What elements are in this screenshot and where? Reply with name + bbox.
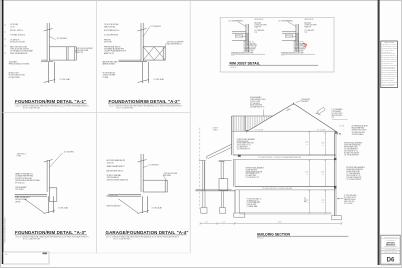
svg-text:TYP: TYP — [255, 32, 258, 34]
svg-text:1/2" GYP BD INTERIOR: 1/2" GYP BD INTERIOR — [344, 155, 359, 157]
svg-text:1/2" OSB SHTG: 1/2" OSB SHTG — [64, 152, 75, 154]
svg-text:10 BOLTS: 10 BOLTS — [107, 162, 114, 164]
svg-text:BOLTS 16 10 FLOOR: BOLTS 16 10 FLOOR — [10, 42, 25, 44]
svg-text:W/ #4 VERT 48" OC: W/ #4 VERT 48" OC — [344, 197, 356, 199]
svg-text:iLevel: iLevel — [305, 22, 312, 24]
svg-text:R21 SLOPE 2X6 SLOPE HOUSE: R21 SLOPE 2X6 SLOPE HOUSE — [382, 64, 397, 66]
svg-text:SEE EN NOTE: SEE EN NOTE — [305, 19, 314, 21]
svg-text:OF 8: OF 8 — [389, 264, 392, 266]
svg-text:MIN PROOF FOOTING IN BLOCK: MIN PROOF FOOTING IN BLOCK — [382, 48, 398, 50]
svg-text:1/2" OSB SHTG: 1/2" OSB SHTG — [305, 30, 315, 32]
svg-text:FLOOR 6 BELOW: FLOOR 6 BELOW — [103, 72, 116, 74]
svg-text:BOLTS MIN ELEV 6'-0: BOLTS MIN ELEV 6'-0 — [104, 30, 119, 32]
svg-text:S-100: S-100 — [231, 55, 235, 57]
svg-text:RIM SILL 1/2 PER JOIST STU: RIM SILL 1/2 PER JOIST STU — [382, 68, 396, 70]
svg-text:1/2" OSB SHTG: 1/2" OSB SHTG — [151, 26, 162, 28]
svg-text:PT MIN OSB JOIST JOIST MIN: PT MIN OSB JOIST JOIST MIN — [382, 74, 396, 76]
svg-text:PT STUD 6'-0: PT STUD 6'-0 — [15, 182, 24, 184]
svg-text:W/ FLOOR: W/ FLOOR — [104, 42, 112, 44]
svg-text:FOUNDATION/RIM DETAIL "A-2": FOUNDATION/RIM DETAIL "A-2" — [109, 99, 180, 104]
svg-text:8'-1" CLG HGT: 8'-1" CLG HGT — [255, 129, 264, 131]
svg-text:VENT PER SPEC: VENT PER SPEC — [332, 115, 343, 117]
svg-text:S-100: S-100 — [281, 55, 285, 57]
svg-text:SEE EN NOTE: SEE EN NOTE — [255, 19, 264, 21]
svg-text:1/2" GYP BD INTERIOR: 1/2" GYP BD INTERIOR — [346, 179, 361, 181]
svg-text:W/ CONT SOFFIT: W/ CONT SOFFIT — [332, 113, 343, 115]
svg-text:SIDING PER ELEV: SIDING PER ELEV — [237, 141, 249, 143]
svg-text:PER BLOCKING 10 FOOTING: PER BLOCKING 10 FOOTING — [9, 64, 30, 66]
svg-text:1/2" OSB SHTG: 1/2" OSB SHTG — [57, 38, 68, 40]
svg-text:FT W/: FT W/ — [17, 156, 22, 158]
svg-text:3/16"=1'-0": 3/16"=1'-0" — [257, 238, 264, 240]
svg-text:SIDING PER ELEV: SIDING PER ELEV — [246, 169, 258, 171]
svg-text:10 ELEV 2X6 PER: 10 ELEV 2X6 PER — [103, 75, 116, 77]
svg-text:JOIST IN 6'-0: JOIST IN 6'-0 — [17, 153, 26, 155]
svg-text:JOIST HOLD-DOWN: JOIST HOLD-DOWN — [164, 173, 177, 175]
svg-text:2'-1": 2'-1" — [222, 222, 225, 224]
svg-text:TJI RIM JOIST PER: TJI RIM JOIST PER — [305, 25, 317, 27]
svg-text:PT PER: PT PER — [103, 77, 109, 79]
svg-text:BD R21 JOIST: BD R21 JOIST — [9, 72, 19, 74]
svg-text:JOIST BD HOUSE SIDING 2X6: JOIST BD HOUSE SIDING 2X6 — [107, 179, 128, 181]
svg-text:GARAGE/FOUNDATION DETAIL "A-: GARAGE/FOUNDATION DETAIL "A-4" — [106, 230, 189, 235]
svg-text:7'-9": 7'-9" — [322, 200, 325, 202]
svg-text:SEE SHEET D2 FOR: SEE SHEET D2 FOR — [244, 47, 256, 49]
svg-text:COMP SHINGLES OVER: COMP SHINGLES OVER — [250, 99, 265, 101]
svg-text:3/4"=1'-0": 3/4"=1'-0" — [231, 67, 237, 69]
svg-text:R21 BLOCKING: R21 BLOCKING — [9, 77, 21, 79]
svg-text:15# FELT OVER: 15# FELT OVER — [250, 101, 260, 103]
svg-text:RIM JOIST DETAIL: RIM JOIST DETAIL — [230, 61, 260, 65]
svg-text:D6: D6 — [387, 257, 395, 264]
svg-text:14'-2": 14'-2" — [278, 222, 282, 224]
svg-text:CLG: CLG — [322, 174, 325, 176]
svg-text:VENTED VINYL SOFFIT: VENTED VINYL SOFFIT — [352, 130, 367, 132]
svg-text:R-49 BLOWN INSUL: R-49 BLOWN INSUL — [250, 105, 263, 107]
svg-text:FOUNDATION/RIM DETAIL "A-1": FOUNDATION/RIM DETAIL "A-1" — [15, 99, 86, 104]
svg-text:16 TYP MIN: 16 TYP MIN — [15, 189, 23, 191]
svg-text:6'-0 OC OC PER W/ 1/2: 6'-0 OC OC PER W/ 1/2 — [382, 63, 393, 65]
svg-text:SEE SHEET D2 FOR: SEE SHEET D2 FOR — [294, 47, 306, 49]
svg-text:6'-0 SILL PER SHTG: 6'-0 SILL PER SHTG — [104, 34, 119, 36]
svg-text:8'-1": 8'-1" — [322, 172, 325, 174]
svg-text:W/ 2-#4 CONT: W/ 2-#4 CONT — [344, 203, 353, 205]
svg-text:LINE OF: LINE OF — [213, 127, 218, 129]
svg-text:BUILDING SECTION: BUILDING SECTION — [257, 233, 290, 237]
svg-text:CLG: CLG — [322, 202, 325, 204]
svg-text:SHEET D4: SHEET D4 — [76, 52, 83, 54]
svg-text:TYP: TYP — [305, 32, 308, 34]
svg-text:FLOOR CONC INT SILL: FLOOR CONC INT SILL — [9, 75, 25, 77]
svg-text:GUTTERS PER SPEC: GUTTERS PER SPEC — [352, 132, 366, 134]
svg-text:FT PER GYP RIM STUD TYP: FT PER GYP RIM STUD TYP — [382, 66, 396, 68]
svg-text:1/2 W/ FND: 1/2 W/ FND — [10, 24, 19, 26]
svg-text:8'-1": 8'-1" — [306, 142, 309, 144]
svg-text:10 W/ SLOPE IN OSB INT: 10 W/ SLOPE IN OSB INT — [382, 80, 394, 82]
svg-text:1/2" GYP BD INT TYP: 1/2" GYP BD INT TYP — [246, 177, 259, 179]
svg-text:FOUNDATION/RIM DETAIL "A-3": FOUNDATION/RIM DETAIL "A-3" — [15, 230, 86, 235]
svg-text:1/2" OSB SHTG: 1/2" OSB SHTG — [250, 103, 260, 105]
svg-text:CLG: CLG — [306, 144, 309, 146]
svg-text:1/2" GYP BD INT TYP: 1/2" GYP BD INT TYP — [237, 148, 250, 150]
svg-text:1'-0" OH: 1'-0" OH — [339, 126, 344, 128]
svg-text:TYP: TYP — [332, 117, 335, 119]
svg-text:JOIST HOLD-DOWN PER: JOIST HOLD-DOWN PER — [76, 48, 93, 50]
svg-text:OC 10: OC 10 — [10, 26, 15, 28]
svg-text:8'-1" CLG HGT: 8'-1" CLG HGT — [317, 129, 326, 131]
svg-text:OC SHTG W/: OC SHTG W/ — [10, 39, 20, 41]
svg-text:CLG: CLG — [306, 202, 309, 204]
svg-text:8'-1": 8'-1" — [322, 142, 325, 144]
svg-text:2'-0": 2'-0" — [205, 222, 208, 224]
svg-text:ANTONIN: ANTONIN — [387, 241, 396, 244]
svg-text:TJI RIM JOIST PER: TJI RIM JOIST PER — [255, 25, 267, 27]
svg-text:PER SPEC: PER SPEC — [302, 101, 309, 103]
svg-text:iLevel: iLevel — [255, 22, 262, 24]
svg-text:2X6 FLOOR 1/2 JOIST R21 SI: 2X6 FLOOR 1/2 JOIST R21 SI — [382, 55, 396, 57]
svg-text:1/2" OSB SHTG: 1/2" OSB SHTG — [255, 30, 265, 32]
svg-text:INSUL SLOPE SHTG: INSUL SLOPE SHTG — [15, 197, 30, 199]
svg-text:W/ W/ W/ R21 OC CONC: W/ W/ W/ R21 OC CONC — [382, 49, 394, 51]
svg-text:PER MIN: PER MIN — [104, 39, 110, 41]
svg-text:1/2" OSB SHTG: 1/2" OSB SHTG — [149, 165, 160, 167]
svg-text:16X8 CONC FTG: 16X8 CONC FTG — [344, 201, 355, 203]
svg-text:JOIST HOLD-DOWN PER: JOIST HOLD-DOWN PER — [167, 42, 184, 44]
svg-text:8'-1": 8'-1" — [306, 172, 309, 174]
svg-text:6 MIL VB OVER: 6 MIL VB OVER — [247, 204, 257, 206]
svg-text:CLG: CLG — [306, 174, 309, 176]
svg-text:CLG: CLG — [322, 144, 325, 146]
svg-text:R21 SILL JOIST 16: R21 SILL JOIST 16 — [10, 30, 23, 32]
svg-text:JOIST 16 FLOOR JOIST W/: JOIST 16 FLOOR JOIST W/ — [10, 49, 29, 51]
svg-text:RIDGE VENT: RIDGE VENT — [302, 99, 311, 101]
svg-text:RESIDENCE: RESIDENCE — [386, 244, 395, 246]
